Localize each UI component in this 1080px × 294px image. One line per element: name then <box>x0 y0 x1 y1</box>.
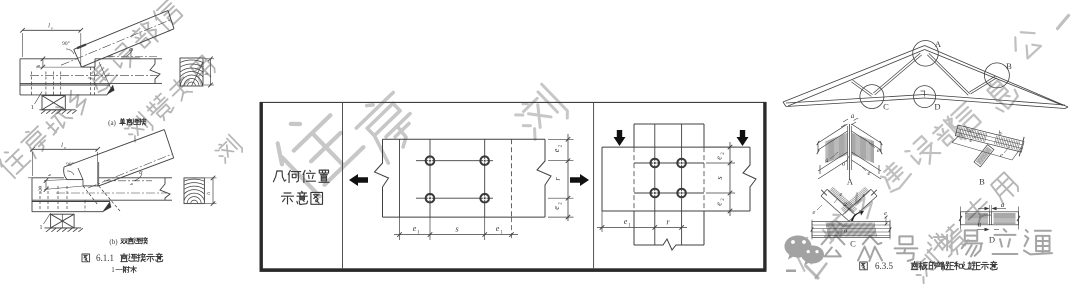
svg-text:e: e <box>624 217 628 226</box>
svg-text:e: e <box>868 170 871 177</box>
svg-text:e: e <box>877 147 880 154</box>
svg-text:h: h <box>206 192 212 195</box>
svg-text:l: l <box>61 142 63 149</box>
svg-text:e: e <box>715 202 724 206</box>
svg-text:e: e <box>813 209 816 216</box>
svg-text:e: e <box>863 192 866 199</box>
svg-text:B: B <box>1006 61 1012 71</box>
svg-text:h: h <box>204 72 210 75</box>
svg-text:90°: 90° <box>62 40 70 47</box>
svg-text:a: a <box>843 200 847 208</box>
svg-text:e: e <box>413 224 417 233</box>
svg-text:e: e <box>715 156 724 160</box>
svg-text:a: a <box>978 221 982 229</box>
svg-text:1: 1 <box>39 224 42 231</box>
svg-text:e: e <box>552 148 561 152</box>
svg-text:(b): (b) <box>109 238 118 246</box>
svg-text:v: v <box>64 145 66 150</box>
svg-text:e: e <box>840 191 843 198</box>
svg-text:(a): (a) <box>108 119 116 127</box>
svg-text:a: a <box>842 161 845 168</box>
svg-text:A: A <box>847 177 854 187</box>
svg-text:C: C <box>850 239 856 249</box>
svg-text:e: e <box>1000 152 1003 159</box>
svg-text:D: D <box>989 235 995 245</box>
svg-text:B: B <box>979 177 985 187</box>
svg-text:a: a <box>844 228 847 235</box>
svg-text:6.3.5: 6.3.5 <box>875 261 894 271</box>
svg-text:a: a <box>1001 201 1005 209</box>
svg-text:1: 1 <box>31 104 34 111</box>
svg-text:e: e <box>970 137 973 144</box>
svg-text:C: C <box>883 102 889 112</box>
svg-text:l: l <box>48 23 50 30</box>
svg-text:e: e <box>552 206 561 210</box>
svg-text:1: 1 <box>111 266 115 274</box>
svg-text:D: D <box>934 102 940 112</box>
svg-text:a: a <box>851 112 855 120</box>
svg-text:6.1.1: 6.1.1 <box>96 253 114 263</box>
svg-text:A: A <box>935 39 942 49</box>
svg-text:e: e <box>496 224 500 233</box>
svg-text:a: a <box>825 156 829 164</box>
svg-text:v: v <box>51 26 53 31</box>
svg-text:90°: 90° <box>66 161 74 168</box>
